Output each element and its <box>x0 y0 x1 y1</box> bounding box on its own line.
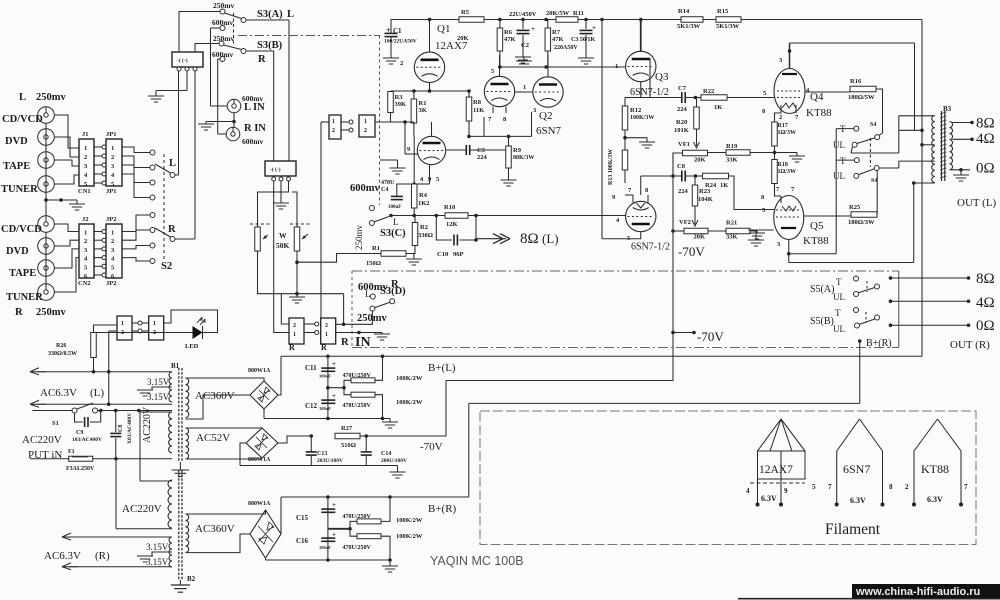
svg-text:4: 4 <box>746 487 750 495</box>
svg-text:1K: 1K <box>714 104 722 111</box>
resistor R4 1K2 <box>411 184 417 208</box>
svg-text:S4: S4 <box>871 178 877 184</box>
svg-text:L: L <box>19 92 26 103</box>
svg-text:JP1: JP1 <box>106 131 116 138</box>
svg-text:DVD: DVD <box>6 246 29 257</box>
wire jack ground bus <box>45 123 47 216</box>
svg-text:C7: C7 <box>678 85 687 92</box>
S3(C) arm <box>374 217 389 223</box>
ground 150ohm <box>406 259 422 265</box>
wire Q5 loop bottom <box>789 253 836 255</box>
ground 0 ohm <box>960 170 962 175</box>
svg-text:100K/2W: 100K/2W <box>396 533 423 540</box>
svg-text:R5: R5 <box>461 9 470 16</box>
ground C1 <box>390 37 392 58</box>
ground Q2 grid top <box>523 57 525 61</box>
transformer B2 core <box>178 470 180 580</box>
svg-text:R17: R17 <box>778 123 788 129</box>
svg-text:+: + <box>332 360 336 368</box>
svg-text:B+(R): B+(R) <box>866 338 892 349</box>
svg-text:C4: C4 <box>381 187 388 193</box>
wire S3(A) out <box>246 19 289 21</box>
svg-text:800W1A: 800W1A <box>248 457 271 463</box>
wire bridge1 out to B+(L) <box>250 378 264 381</box>
svg-text:224: 224 <box>477 154 488 161</box>
svg-text:X03/AC400V: X03/AC400V <box>127 413 133 444</box>
svg-text:R12: R12 <box>630 107 641 114</box>
svg-text:200U/100V: 200U/100V <box>381 458 407 464</box>
capacitor C14 200U/100V <box>365 436 367 452</box>
svg-text:96P: 96P <box>453 251 464 258</box>
dashed line C1 column <box>379 36 381 206</box>
wire R pole to box <box>175 238 195 240</box>
wire VF1 left down to C8 node <box>673 153 683 176</box>
resistor R2 330 <box>412 223 418 246</box>
selector pole R <box>170 237 175 242</box>
bias feed line -70V vertical <box>672 153 674 381</box>
svg-text:R21: R21 <box>726 220 737 227</box>
svg-text:100uF: 100uF <box>388 205 401 210</box>
jack R IN <box>226 127 240 141</box>
svg-text:9: 9 <box>784 487 788 495</box>
filament box <box>480 411 976 545</box>
B2 secondary AC360V (R) <box>186 514 189 552</box>
svg-text:R27: R27 <box>341 425 353 432</box>
svg-text:R: R <box>341 337 349 348</box>
svg-text:C8: C8 <box>677 163 686 170</box>
svg-text:33K: 33K <box>726 157 738 164</box>
svg-text:2: 2 <box>905 483 909 491</box>
filament KT88 <box>914 419 938 451</box>
svg-text:6.3V: 6.3V <box>927 495 943 504</box>
svg-text:C16: C16 <box>296 537 309 545</box>
svg-text:C9: C9 <box>76 430 83 436</box>
svg-text:39K: 39K <box>395 101 407 108</box>
capacitor C8X <box>115 411 117 433</box>
switch S1 + C9 <box>33 410 75 412</box>
svg-text:+: + <box>332 392 336 400</box>
svg-text:250mv: 250mv <box>36 307 66 318</box>
svg-text:R19: R19 <box>726 143 738 150</box>
svg-text:3.15V: 3.15V <box>146 542 169 552</box>
LED <box>193 326 203 339</box>
svg-text:+: + <box>332 501 336 509</box>
svg-text:20K/5W: 20K/5W <box>546 10 570 17</box>
svg-text:R10: R10 <box>444 204 455 211</box>
svg-text:IN: IN <box>355 335 371 350</box>
svg-text:Q5: Q5 <box>810 220 824 232</box>
svg-text:UL: UL <box>833 171 845 181</box>
svg-text:3.15V: 3.15V <box>147 377 170 387</box>
svg-text:1: 1 <box>332 119 335 125</box>
svg-text:100uF: 100uF <box>319 406 331 411</box>
wire relay2 to R connector box <box>274 181 289 333</box>
svg-text:104K: 104K <box>698 196 713 203</box>
wire B3 primary bottom to Q5 plate <box>914 182 935 184</box>
wire C13/C14 ground bus <box>240 465 398 467</box>
svg-text:1: 1 <box>364 119 367 125</box>
svg-text:JP1: JP1 <box>106 188 116 195</box>
svg-text:CD/VCD: CD/VCD <box>1 224 42 235</box>
resistor R8 11K <box>466 97 472 121</box>
svg-text:R16: R16 <box>850 78 862 85</box>
svg-text:T: T <box>836 277 842 287</box>
resistor R23 104K <box>692 185 698 206</box>
wire jack grounds <box>233 113 235 128</box>
output tap 4 ohm <box>953 138 973 140</box>
watermark bar <box>852 584 1000 598</box>
S3(C) contacts <box>369 206 374 211</box>
svg-text:1: 1 <box>293 332 296 338</box>
svg-text:Q2: Q2 <box>539 110 552 122</box>
wire S4 upper T to left loop <box>836 128 854 130</box>
svg-text:AC6.3V: AC6.3V <box>40 387 77 399</box>
svg-text:YAQIN MC 100B: YAQIN MC 100B <box>430 554 524 568</box>
svg-text:8Ω: 8Ω <box>976 271 995 287</box>
svg-text:L: L <box>287 9 294 20</box>
capacitor C3 <box>585 20 587 30</box>
svg-text:Q3: Q3 <box>655 71 669 83</box>
wire into connector from pot area <box>320 122 322 318</box>
wire bridge2 negative <box>240 443 246 466</box>
svg-text:470U/250V: 470U/250V <box>343 403 372 409</box>
svg-text:8: 8 <box>889 483 893 491</box>
svg-text:47K: 47K <box>552 36 564 43</box>
svg-text:KT88: KT88 <box>806 107 832 119</box>
svg-text:2: 2 <box>293 323 296 329</box>
tube Q3 6SN7 lower (inverted) <box>626 201 656 231</box>
B1 secondary AC52V <box>186 428 189 459</box>
AC6.3V L wires <box>30 368 46 375</box>
B1 secondary AC360V <box>186 378 189 418</box>
wire pot bus tap to R box <box>281 294 289 324</box>
connector boxes R channel <box>289 318 304 344</box>
svg-text:R3: R3 <box>395 94 404 101</box>
relay K2 <box>265 161 296 176</box>
wires jacks to J2 <box>54 224 79 232</box>
selector S2 contacts L group <box>150 150 155 155</box>
-70V label stub <box>673 332 694 334</box>
svg-text:C12: C12 <box>305 402 318 410</box>
svg-text:JP2: JP2 <box>106 216 116 223</box>
wire relay2 center to ground <box>280 181 282 203</box>
wire R12 bottom / ground tap <box>624 130 626 150</box>
B3 primary winding <box>932 115 935 182</box>
svg-text:100K/2W: 100K/2W <box>396 517 423 524</box>
svg-text:L: L <box>365 289 371 299</box>
B2 heater winding (R) <box>169 537 172 567</box>
selector pole L <box>170 173 175 178</box>
ground B1/B2 center <box>179 462 181 470</box>
svg-text:100uF: 100uF <box>319 374 331 379</box>
svg-text:6SN7: 6SN7 <box>536 125 562 137</box>
svg-text:1: 1 <box>153 321 156 327</box>
filament 6SN7 <box>837 419 860 451</box>
svg-text:F1: F1 <box>68 449 75 455</box>
ground C3 <box>578 58 594 64</box>
svg-text:510Ω: 510Ω <box>341 442 356 449</box>
svg-text:C14: C14 <box>381 451 391 457</box>
svg-text:CD/VCD: CD/VCD <box>2 114 43 125</box>
ground R12/R13 <box>646 138 648 142</box>
svg-text:180Ω/3W: 180Ω/3W <box>848 219 875 226</box>
wire S4 lower arm to transformer UL tap <box>879 167 899 169</box>
svg-text:R2: R2 <box>420 224 428 231</box>
svg-text:2: 2 <box>111 238 114 245</box>
output row 0 ohm (R) <box>889 323 893 327</box>
wire S4 lower T to left loop <box>836 159 854 161</box>
output tap 0 ohm <box>950 169 971 171</box>
heater center tap ground <box>152 387 172 390</box>
ground R9 <box>508 168 510 180</box>
wire 600mv to L IN <box>211 27 221 29</box>
svg-text:600mv: 600mv <box>242 137 263 146</box>
svg-text:8Ω: 8Ω <box>976 116 995 132</box>
svg-text:R: R <box>168 224 176 235</box>
svg-text:S3(B): S3(B) <box>257 40 283 51</box>
heater R center tap ground <box>152 552 172 556</box>
svg-text:1Ω/3W: 1Ω/3W <box>778 130 796 136</box>
svg-text:22U/450V: 22U/450V <box>509 11 537 18</box>
wire Q5 plate bottom <box>788 240 790 263</box>
svg-text:1K: 1K <box>720 182 728 189</box>
svg-text:47K: 47K <box>504 36 516 43</box>
svg-text:Q1: Q1 <box>437 23 450 35</box>
svg-text:250mv: 250mv <box>36 92 66 103</box>
svg-text:VF2: VF2 <box>679 219 691 226</box>
ground C4 area <box>397 160 399 168</box>
svg-text:R9: R9 <box>513 147 522 154</box>
svg-text:600mv: 600mv <box>350 183 380 194</box>
svg-text:1: 1 <box>84 145 87 152</box>
svg-text:R15: R15 <box>717 8 729 15</box>
wire LED loop <box>164 310 218 333</box>
resistor R12 100K/3W <box>622 106 628 130</box>
svg-text:5K1/3W: 5K1/3W <box>677 23 701 30</box>
wire bridge2 to -70V row <box>278 436 311 443</box>
filter C11/C12 B+(L) <box>327 356 329 418</box>
svg-text:L: L <box>393 217 399 227</box>
selector S2 contacts R group <box>150 213 155 218</box>
wire Q3 lower plate to B+ column <box>602 232 641 239</box>
svg-text:R8: R8 <box>473 99 482 106</box>
S3 link dashed <box>233 13 235 44</box>
filament 12AX7 <box>758 419 782 451</box>
ground Q5 left <box>748 229 774 231</box>
svg-text:CN1: CN1 <box>78 188 91 195</box>
resistor R9 80K/3W <box>506 146 512 168</box>
wire 600mv to R IN <box>218 58 220 60</box>
wire Q4 plate top rail <box>790 42 915 44</box>
S3(B) arm <box>224 45 242 50</box>
relay K1 <box>172 52 203 67</box>
svg-text:2: 2 <box>779 114 782 121</box>
svg-text:DVD: DVD <box>5 136 28 147</box>
tube Q3 6SN7 upper <box>626 51 656 81</box>
wire S4 upper UL to transformer tap <box>851 147 899 153</box>
dash-dot line to C1 <box>238 35 380 37</box>
B+ rail right vertical <box>921 20 923 357</box>
ground relay2 <box>273 203 289 209</box>
ground R21 <box>750 231 756 240</box>
svg-text:JP2: JP2 <box>106 280 116 287</box>
svg-text:250mv: 250mv <box>354 224 364 250</box>
svg-text:AC220V: AC220V <box>122 503 162 515</box>
svg-text:150Ω: 150Ω <box>366 260 381 267</box>
svg-text:S4: S4 <box>870 122 876 128</box>
wire pot left to connector <box>258 251 344 294</box>
svg-text:1: 1 <box>615 63 618 70</box>
svg-text:2: 2 <box>84 238 87 245</box>
wire bridge3 to B+(R) <box>280 497 282 534</box>
connector pair 1-2 (L loop) <box>329 115 341 139</box>
svg-text:R14: R14 <box>678 8 690 15</box>
svg-text:C8: C8 <box>118 425 124 432</box>
svg-text:-70V: -70V <box>678 244 705 259</box>
svg-text:3K: 3K <box>419 107 427 114</box>
svg-text:4Ω: 4Ω <box>976 295 995 311</box>
svg-text:F3AL250V: F3AL250V <box>66 466 95 472</box>
resistor R6 47K <box>497 28 503 51</box>
wire L pole up to relay <box>178 69 180 175</box>
svg-text:-( (-): -( (-) <box>177 57 188 64</box>
svg-text:470U: 470U <box>381 180 395 186</box>
svg-text:20K: 20K <box>694 157 706 164</box>
svg-text:0Ω: 0Ω <box>976 318 995 334</box>
svg-text:AC6.3V: AC6.3V <box>44 550 81 562</box>
wire relay pin to ground <box>186 72 188 91</box>
tube Q2 first triode <box>484 76 514 106</box>
wire R24 to Q5 grid <box>729 176 775 210</box>
svg-text:OUT (L): OUT (L) <box>957 197 997 209</box>
svg-text:2: 2 <box>84 154 87 161</box>
svg-text:103/AC400V: 103/AC400V <box>72 437 102 443</box>
wire B+(R) feed <box>859 341 861 403</box>
svg-text:224: 224 <box>677 106 688 113</box>
svg-text:KT88: KT88 <box>803 235 829 247</box>
wires R connector to IN <box>336 332 359 334</box>
B2 primary AC220V <box>168 480 172 528</box>
svg-text:224: 224 <box>678 188 689 195</box>
svg-text:R: R <box>258 54 266 65</box>
svg-text:J1: J1 <box>82 131 89 138</box>
wire bridge1 negative to filter bottom <box>263 409 265 419</box>
svg-text:S3(C): S3(C) <box>380 228 406 239</box>
svg-text:C13: C13 <box>317 451 327 457</box>
B+ top bus <box>391 19 922 21</box>
svg-text:R13 100K/3W: R13 100K/3W <box>608 149 614 185</box>
svg-text:AC360V: AC360V <box>195 390 235 402</box>
ground R17/R18 <box>775 152 798 154</box>
svg-text:12AX7: 12AX7 <box>759 464 793 476</box>
svg-text:6SN7-1/2: 6SN7-1/2 <box>630 87 669 98</box>
svg-text:5K1/3W: 5K1/3W <box>716 23 740 30</box>
svg-text:S5(B): S5(B) <box>810 316 834 327</box>
svg-text:VF1: VF1 <box>678 141 690 148</box>
svg-text:2: 2 <box>400 60 403 67</box>
svg-text:R: R <box>15 307 23 318</box>
svg-text:UL: UL <box>833 140 845 150</box>
svg-text:R IN: R IN <box>244 123 266 134</box>
svg-text:330Ω/0.5W: 330Ω/0.5W <box>48 351 77 357</box>
svg-text:2: 2 <box>325 323 328 329</box>
svg-text:AC360V: AC360V <box>195 523 235 535</box>
svg-text:R18: R18 <box>778 162 788 168</box>
svg-text:50K: 50K <box>276 241 290 250</box>
svg-text:LED: LED <box>185 343 199 350</box>
svg-text:CN2: CN2 <box>78 280 91 287</box>
wire filter bottom + ground <box>328 418 390 420</box>
resistor R24 1K <box>703 173 729 179</box>
svg-text:C3 50/1K: C3 50/1K <box>571 37 596 43</box>
svg-text:R4: R4 <box>419 192 428 199</box>
svg-text:100uF: 100uF <box>319 545 331 550</box>
arrow R23 to VF2 <box>694 206 696 224</box>
svg-text:11K: 11K <box>473 107 484 114</box>
svg-text:TUNER: TUNER <box>1 184 38 195</box>
svg-text:C11: C11 <box>305 364 317 372</box>
svg-text:1: 1 <box>84 230 87 237</box>
volume pot W 50K right <box>294 227 300 251</box>
svg-text:TAPE: TAPE <box>3 161 30 172</box>
svg-text:W: W <box>279 231 287 240</box>
svg-text:1: 1 <box>111 230 114 237</box>
wire B3 center tap to B+ <box>922 144 935 146</box>
tube Q2 second triode <box>533 77 563 107</box>
svg-text:L IN: L IN <box>244 102 265 113</box>
S3(D) switch <box>370 306 375 311</box>
svg-text:180Ω/5W: 180Ω/5W <box>848 94 875 101</box>
svg-text:1K2: 1K2 <box>418 200 430 207</box>
svg-text:203U/100V: 203U/100V <box>317 458 343 464</box>
svg-text:800W1A: 800W1A <box>248 501 271 507</box>
capacitor C5 224 <box>466 145 469 155</box>
svg-text:7: 7 <box>828 483 832 491</box>
svg-text:6SN7-1/2: 6SN7-1/2 <box>631 242 670 253</box>
wire AC52V to bridge2 <box>186 427 263 429</box>
svg-text:R11: R11 <box>573 10 584 17</box>
wire pot tap to 150ohm <box>297 254 381 263</box>
S3(A) arm <box>225 13 242 19</box>
svg-text:AC52V: AC52V <box>196 432 230 444</box>
svg-text:R: R <box>321 343 327 352</box>
wire Q2 plate row to Q3 grid <box>498 66 626 68</box>
svg-text:UL: UL <box>833 324 845 334</box>
svg-text:R1: R1 <box>372 245 380 252</box>
svg-text:100K/2W: 100K/2W <box>396 375 423 382</box>
label B+(R) node <box>858 339 862 343</box>
wire Q3 lower cathode to C8 row <box>637 203 645 208</box>
wire Q5 plate rail <box>913 183 915 263</box>
B+(L) rail <box>281 355 922 357</box>
svg-text:12AX7: 12AX7 <box>435 40 468 52</box>
svg-text:250mv: 250mv <box>213 1 234 10</box>
svg-text:S3(D): S3(D) <box>380 286 406 297</box>
svg-text:-( (-): -( (-) <box>270 166 281 173</box>
wire Q1 cathode row <box>429 83 431 92</box>
feedback arrow 8ohm L <box>474 238 478 242</box>
wires jacks to J1 <box>54 115 79 148</box>
svg-text:6SN7: 6SN7 <box>843 462 870 476</box>
wire grid to Q1 lower triode <box>404 122 406 154</box>
B1 core <box>178 368 180 462</box>
wire S3C row <box>391 215 625 217</box>
svg-text:C10: C10 <box>437 251 448 258</box>
svg-text:S5(A): S5(A) <box>810 284 834 295</box>
svg-text:R7: R7 <box>552 29 561 36</box>
wire R16 to S4 upper <box>876 89 883 136</box>
svg-text:100/22UA50V: 100/22UA50V <box>384 39 417 45</box>
